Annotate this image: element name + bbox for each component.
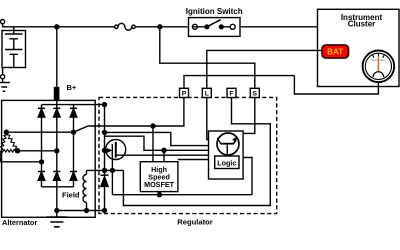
node HS bottom stub xyxy=(157,193,161,197)
terminal S xyxy=(250,88,259,97)
terminal L xyxy=(202,88,211,97)
wire S to logic box xyxy=(243,98,255,134)
switch terminal circle left xyxy=(192,24,197,29)
svg-text:Regulator: Regulator xyxy=(177,218,212,227)
wire top bus battery to fuse xyxy=(3,24,115,27)
wire source run xyxy=(116,154,209,156)
wire P to tach xyxy=(184,76,378,94)
stator delta winding xyxy=(1,132,18,152)
node phase A leg3 xyxy=(72,130,76,134)
svg-text:S: S xyxy=(253,90,258,97)
wire inside switch xyxy=(192,26,230,28)
wire HS branch 2 xyxy=(163,150,165,161)
diode D4 bottom xyxy=(38,172,45,181)
svg-text:BAT: BAT xyxy=(327,48,343,57)
wire L to logic box xyxy=(207,98,209,140)
wire B+ vertical regulator xyxy=(104,105,106,171)
instrument cluster box xyxy=(318,9,400,86)
node winding right vertex xyxy=(16,149,20,153)
svg-text:Tachometer: Tachometer xyxy=(371,58,386,62)
node phase B leg2 xyxy=(55,149,59,153)
wire HS bottom stub xyxy=(158,192,160,195)
svg-text:Ignition Switch: Ignition Switch xyxy=(186,7,243,16)
switch lever xyxy=(207,20,221,27)
wire W2 to logic box xyxy=(105,132,209,145)
flyback diode D7 xyxy=(101,170,109,210)
wire W3 regulator feed xyxy=(105,136,209,150)
node battery-alternator junction xyxy=(55,25,59,29)
node drain HS branch xyxy=(162,148,166,152)
battery negative terminal circle xyxy=(1,75,5,79)
terminal P xyxy=(180,88,189,97)
diode D3 top xyxy=(70,108,77,117)
rectifier ground bus xyxy=(42,186,74,188)
node coil bottom xyxy=(85,209,89,213)
diode D1 top xyxy=(38,108,45,117)
diode D2 top xyxy=(53,108,60,117)
gauge tachometer xyxy=(363,51,395,83)
field coil L1 xyxy=(83,170,87,210)
high speed mosfet box xyxy=(140,162,178,192)
rectifier leg 2 xyxy=(56,100,58,186)
rectifier leg 1 xyxy=(41,105,43,187)
svg-text:Field: Field xyxy=(62,191,80,200)
wire phase tap to P xyxy=(74,98,184,133)
battery positive terminal circle xyxy=(1,20,5,24)
wire field node xyxy=(87,169,124,171)
node field feed xyxy=(103,168,107,172)
alternator box xyxy=(2,100,96,217)
ignition switch box xyxy=(189,18,241,37)
svg-text:P: P xyxy=(182,90,187,97)
fuse F1 xyxy=(115,23,136,30)
node gate lead tap xyxy=(103,148,107,152)
node W2 branch xyxy=(103,130,107,134)
rectifier leg 3 xyxy=(73,105,75,187)
MOSFET Q1 xyxy=(105,140,126,160)
svg-text:Alternator: Alternator xyxy=(2,218,37,227)
switch contact dot right xyxy=(219,25,223,29)
wire HS branch 1 xyxy=(152,126,154,162)
wire S sense run xyxy=(160,27,255,89)
wire switch to cluster xyxy=(240,26,318,28)
node winding apex xyxy=(4,130,8,134)
ground battery xyxy=(0,79,10,92)
switch terminal circle right xyxy=(230,24,235,29)
wire F loop xyxy=(123,98,270,206)
svg-text:Cluster: Cluster xyxy=(348,20,376,29)
wire gate run to logic xyxy=(112,158,252,195)
node diode bottom xyxy=(103,209,107,213)
battery cell plates xyxy=(5,27,23,68)
battery case xyxy=(2,31,26,68)
diode D5 bottom xyxy=(53,172,60,181)
diode D6 bottom xyxy=(70,172,77,181)
wire phase B xyxy=(18,150,57,152)
wire lamp L to BAT xyxy=(207,50,322,88)
B+ terminal bar xyxy=(54,87,60,101)
wire fuse to ignition switch xyxy=(135,26,188,28)
svg-text:Logic: Logic xyxy=(217,158,236,167)
rectifier top bus xyxy=(42,104,105,106)
svg-text:L: L xyxy=(205,90,209,97)
wire HS side feed xyxy=(178,159,209,161)
wire gate drop xyxy=(111,156,113,195)
switch contact dot left xyxy=(205,25,209,29)
low bus field return xyxy=(57,210,105,212)
transistor Q2 xyxy=(217,133,239,156)
svg-text:MOSFET: MOSFET xyxy=(144,180,175,189)
BAT indicator badge xyxy=(322,45,349,58)
node bus to regulator xyxy=(103,103,107,107)
wire B+ drop xyxy=(56,27,58,87)
node phase tap HS branch xyxy=(151,124,155,128)
wire phase A xyxy=(6,131,73,133)
regulator dashed box xyxy=(99,97,277,213)
battery negative stub xyxy=(2,68,4,75)
node phase C leg1 xyxy=(40,160,44,164)
svg-text:F: F xyxy=(229,90,233,97)
node ground low bus xyxy=(55,209,59,213)
wire phase C xyxy=(1,151,42,162)
terminal F xyxy=(227,88,236,97)
wire ground drop xyxy=(56,187,58,217)
ground alternator xyxy=(46,217,67,227)
node gate junction xyxy=(110,168,114,172)
svg-text:B+: B+ xyxy=(67,83,77,92)
logic inner box xyxy=(209,131,244,179)
logic box xyxy=(215,156,239,169)
node S-wire tap xyxy=(158,25,162,29)
